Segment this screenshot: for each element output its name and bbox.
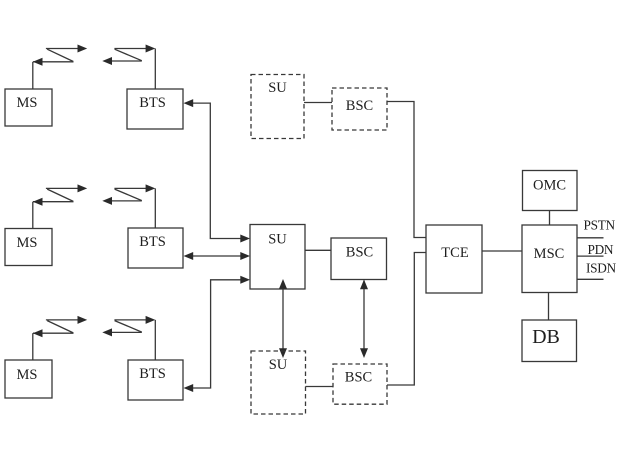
wire SU-BSC top: [304, 102, 332, 104]
wire OMC-MSC: [549, 211, 551, 226]
wire BTS2-SU: [184, 252, 251, 260]
svg-text:BSC: BSC: [346, 98, 373, 114]
wire SU-BSC centre: [305, 249, 331, 251]
radio link BTS2: [102, 184, 155, 228]
svg-text:BTS: BTS: [139, 234, 166, 250]
svg-text:OMC: OMC: [533, 178, 566, 194]
wire MSC-DB: [548, 293, 550, 321]
box BSC top (dashed): [332, 88, 387, 130]
svg-text:PDN: PDN: [588, 242, 614, 257]
svg-text:PSTN: PSTN: [584, 218, 616, 233]
svg-text:BTS: BTS: [139, 366, 166, 382]
svg-text:DB: DB: [532, 326, 560, 348]
box BTS2: [128, 228, 183, 268]
box OMC: [523, 171, 578, 211]
radio link MS2: [33, 184, 87, 228]
box TCE: [426, 225, 482, 293]
svg-text:SU: SU: [268, 232, 287, 248]
wire MSC-PDN: [577, 255, 604, 257]
box MS1: [5, 89, 52, 126]
box BTS3: [128, 360, 183, 400]
box BSC centre: [331, 238, 387, 280]
wire TCE-MSC: [482, 250, 522, 252]
svg-text:BSC: BSC: [345, 370, 372, 386]
wire BTS3-SU: [184, 276, 251, 392]
svg-text:SU: SU: [269, 357, 288, 373]
wire MSC-ISDN: [577, 278, 604, 280]
wire BSC top-TCE: [387, 102, 426, 238]
svg-text:TCE: TCE: [441, 245, 469, 261]
box MS2: [5, 229, 52, 266]
wire BSC-BSC vertical: [360, 280, 368, 359]
radio link MS1: [33, 45, 87, 90]
svg-text:MS: MS: [17, 95, 38, 111]
svg-text:BSC: BSC: [346, 245, 373, 261]
svg-text:BTS: BTS: [139, 95, 166, 111]
box BSC bottom (dashed): [333, 364, 387, 404]
wire SU-SU vertical: [279, 279, 287, 358]
svg-text:MS: MS: [17, 235, 38, 251]
svg-text:MSC: MSC: [534, 246, 565, 262]
wire BSC bottom-TCE: [387, 253, 426, 386]
radio link MS3: [33, 316, 87, 360]
box MS3: [5, 360, 52, 398]
box SU centre: [250, 225, 305, 290]
wire MSC-PSTN: [577, 237, 604, 239]
svg-text:MS: MS: [17, 367, 38, 383]
svg-text:ISDN: ISDN: [586, 261, 617, 276]
wire BTS1-SU: [184, 99, 251, 242]
wire SU-BSC bottom: [306, 386, 334, 388]
svg-text:SU: SU: [268, 80, 287, 96]
radio link BTS1: [102, 45, 155, 90]
box DB: [522, 320, 577, 362]
box SU bottom (dashed): [251, 351, 306, 414]
box BTS1: [127, 89, 183, 129]
radio link BTS3: [102, 316, 155, 360]
box SU top (dashed): [251, 75, 304, 139]
box MSC: [522, 225, 577, 293]
